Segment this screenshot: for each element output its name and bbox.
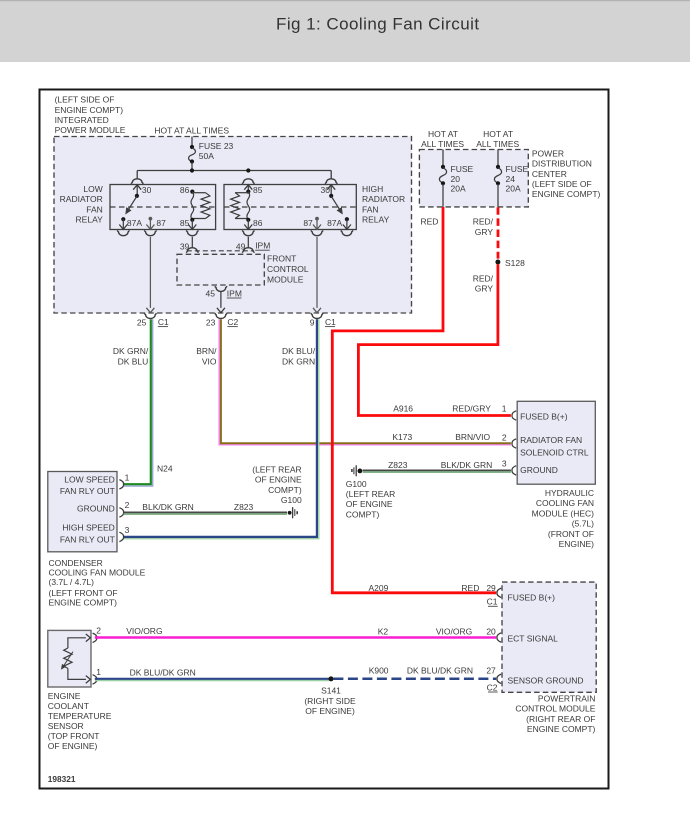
wire PDC top edge to fuse 20 bbox=[442, 150, 444, 167]
relay K1 coil winding bbox=[191, 192, 194, 220]
relay K2 internal dashed divider bbox=[224, 206, 356, 208]
svg-text:RELAY: RELAY bbox=[76, 215, 104, 225]
relay K1 internal dashed divider bbox=[110, 206, 216, 208]
figure number 198321 bbox=[48, 774, 76, 784]
relay K1 87A stub bbox=[119, 219, 127, 229]
svg-text:30: 30 bbox=[321, 185, 331, 195]
svg-text:198321: 198321 bbox=[48, 774, 76, 784]
svg-text:RADIATOR: RADIATOR bbox=[362, 194, 405, 204]
connector arc - PCM pin 29 bbox=[497, 588, 501, 597]
label FUSED B(+) (HEC) bbox=[520, 411, 568, 421]
svg-text:POWER: POWER bbox=[532, 148, 564, 158]
svg-text:3: 3 bbox=[125, 525, 130, 535]
connector arc - HEC pin 1 bbox=[512, 411, 516, 420]
relay K2 87A stub bbox=[343, 219, 351, 229]
junction node - bus to high relay coil bbox=[246, 168, 250, 172]
svg-text:SOLENOID CTRL: SOLENOID CTRL bbox=[520, 448, 589, 458]
connector arc - PCM pin 20 bbox=[497, 633, 501, 642]
relay K2 coil top node bbox=[246, 190, 250, 194]
svg-text:(RIGHT SIDE: (RIGHT SIDE bbox=[304, 696, 356, 706]
condenser cooling fan module box bbox=[48, 472, 117, 552]
svg-text:(LEFT SIDE OF: (LEFT SIDE OF bbox=[55, 95, 115, 105]
svg-text:45: 45 bbox=[206, 288, 216, 298]
integrated power module box (dashed) bbox=[54, 137, 412, 314]
svg-text:VIO/ORG: VIO/ORG bbox=[126, 626, 162, 636]
svg-text:LOW SPEED: LOW SPEED bbox=[64, 475, 115, 485]
svg-text:COOLANT: COOLANT bbox=[48, 701, 89, 711]
svg-text:87: 87 bbox=[303, 218, 313, 228]
pin label 30 (K1) bbox=[142, 185, 152, 195]
fuse F24 20A bbox=[494, 165, 501, 186]
pin label 2 (condenser) bbox=[125, 500, 130, 510]
svg-text:IPM: IPM bbox=[227, 288, 242, 298]
connector arc - HEC pin 3 bbox=[512, 466, 516, 475]
label DK BLU/ DK GRN bbox=[282, 346, 316, 366]
svg-text:CONDENSER: CONDENSER bbox=[49, 558, 103, 568]
svg-text:20A: 20A bbox=[451, 184, 466, 194]
FCM connector dashed link bbox=[187, 250, 254, 252]
ECT internal lead to pin 2 bbox=[68, 634, 91, 648]
relay K2 contact 87A node bbox=[345, 217, 349, 221]
svg-text:86: 86 bbox=[180, 185, 190, 195]
svg-text:DK GRN: DK GRN bbox=[282, 356, 315, 366]
relay K1 switch pivot node bbox=[135, 194, 139, 198]
fuse F23 50A bbox=[189, 145, 196, 164]
wire FCM pin 45 to IPM connector 23 bbox=[217, 292, 225, 313]
connector arc - condenser pin 1 bbox=[119, 480, 123, 489]
connector arc - K1 pin 30 bbox=[131, 179, 143, 184]
engine coolant temperature sensor box bbox=[48, 630, 91, 687]
wire BLK/DK GRN circuit Z823 (condenser pin 2 to ground G100) bbox=[124, 512, 287, 514]
svg-text:(LEFT SIDE OF: (LEFT SIDE OF bbox=[532, 179, 592, 189]
hydraulic cooling fan module box bbox=[517, 401, 595, 484]
connector 9 C1 arc bbox=[311, 313, 323, 318]
svg-text:85: 85 bbox=[253, 185, 263, 195]
svg-text:Fig 1: Cooling Fan Circuit: Fig 1: Cooling Fan Circuit bbox=[276, 14, 480, 33]
svg-text:86: 86 bbox=[253, 218, 263, 228]
svg-text:1: 1 bbox=[502, 403, 507, 413]
svg-text:(5.7L): (5.7L) bbox=[572, 519, 594, 529]
svg-text:ENGINE COMPT): ENGINE COMPT) bbox=[532, 189, 601, 199]
wire PDC top edge to fuse 24 bbox=[497, 150, 499, 167]
svg-text:RELAY: RELAY bbox=[362, 215, 390, 225]
svg-text:(3.7L / 4.7L): (3.7L / 4.7L) bbox=[49, 577, 95, 587]
ECT thermistor element bbox=[64, 648, 72, 668]
svg-text:(LEFT REAR: (LEFT REAR bbox=[346, 489, 395, 499]
svg-text:DISTRIBUTION: DISTRIBUTION bbox=[532, 159, 592, 169]
HEC row labels A916 RED/GRY bbox=[393, 403, 491, 413]
label HIGH RADIATOR FAN RELAY bbox=[362, 184, 405, 225]
connector arc - FCM pin 49 bbox=[242, 248, 254, 253]
connector 23 C2 arc bbox=[215, 313, 227, 318]
svg-text:1: 1 bbox=[96, 667, 101, 677]
svg-text:K173: K173 bbox=[392, 432, 412, 442]
label ECT SIGNAL (PCM) bbox=[508, 634, 559, 644]
connector arc below K2 86 bbox=[242, 231, 254, 236]
wire RED/GRY circuit A916 (S128 to HEC fused B+) bbox=[358, 264, 511, 415]
wire K1 pin 85 to FCM pin 39 bbox=[191, 237, 193, 248]
label G100 (LEFT REAR OF ENGINE COMPT) left-aligned bbox=[346, 479, 395, 520]
svg-text:C1: C1 bbox=[325, 317, 336, 327]
wire from IPM top edge to fuse 23 bbox=[191, 137, 193, 147]
header bar bbox=[0, 0, 690, 62]
diagram frame bbox=[40, 90, 609, 789]
svg-text:G100: G100 bbox=[346, 479, 367, 489]
svg-text:CONTROL MODULE: CONTROL MODULE bbox=[515, 704, 595, 714]
svg-text:Z823: Z823 bbox=[234, 502, 254, 512]
svg-text:DK BLU: DK BLU bbox=[118, 356, 149, 366]
svg-text:HIGH SPEED: HIGH SPEED bbox=[62, 523, 114, 533]
svg-text:(RIGHT REAR OF: (RIGHT REAR OF bbox=[526, 714, 595, 724]
pin label 87A (K2) bbox=[327, 218, 342, 228]
svg-text:20A: 20A bbox=[506, 184, 521, 194]
label G100 (LEFT REAR OF ENGINE COMPT) right-aligned bbox=[252, 465, 302, 506]
connector arc - PCM pin 27 bbox=[497, 674, 501, 683]
svg-text:FAN RLY OUT: FAN RLY OUT bbox=[60, 486, 115, 496]
svg-text:SENSOR: SENSOR bbox=[48, 721, 84, 731]
wire K2 pin 87 to IPM connector 9 bbox=[313, 237, 321, 313]
svg-text:IPM: IPM bbox=[255, 241, 270, 251]
ECT internal lead to pin 1 bbox=[68, 668, 91, 683]
powertrain control module box (dashed) bbox=[502, 582, 596, 692]
wire DK GRN/DK BLU circuit N24 (25 C1 to condenser fan pin 1) bbox=[124, 319, 153, 486]
svg-text:MODULE (HEC): MODULE (HEC) bbox=[532, 508, 595, 518]
svg-text:2: 2 bbox=[96, 625, 101, 635]
label POWER DISTRIBUTION CENTER bbox=[532, 148, 601, 199]
relay K1 contact 87A node bbox=[121, 217, 125, 221]
relay K2 87 stub bbox=[313, 219, 321, 230]
svg-text:MODULE: MODULE bbox=[267, 275, 304, 285]
svg-text:FUSE 23: FUSE 23 bbox=[199, 141, 234, 151]
wire fuse 24 to PDC bottom edge bbox=[497, 184, 499, 207]
relay K2 coil winding bbox=[247, 192, 250, 220]
svg-text:K2: K2 bbox=[378, 627, 389, 637]
svg-text:RED/GRY: RED/GRY bbox=[452, 403, 491, 413]
pin label 2 (HEC) bbox=[502, 432, 507, 442]
svg-text:ENGINE COMPT): ENGINE COMPT) bbox=[55, 105, 124, 115]
relay K1 parallel resistor bbox=[192, 193, 210, 219]
connector arc - condenser pin 2 bbox=[119, 508, 123, 517]
svg-text:C2: C2 bbox=[487, 682, 498, 692]
label FUSE 20 20A bbox=[451, 164, 474, 194]
connector arc below K1 85 bbox=[186, 231, 198, 236]
power distribution center box (dashed) bbox=[419, 150, 528, 207]
connector arc below K1 87 bbox=[144, 231, 156, 236]
connector arc - ECT pin 1 bbox=[93, 675, 97, 684]
svg-text:BRN/VIO: BRN/VIO bbox=[455, 432, 490, 442]
wire RED circuit A209 (fuse 20 to PCM fused B+) bbox=[332, 207, 496, 593]
pin label 29 C1 (PCM) bbox=[486, 583, 497, 607]
wire BLK/DK GRN circuit Z823 (G100 to HEC ground) bbox=[363, 470, 511, 472]
label BRN/ VIO bbox=[196, 346, 217, 366]
svg-text:FUSED B(+): FUSED B(+) bbox=[508, 592, 556, 602]
wire DK BLU/DK GRN circuit K900 (S141 to PCM sensor ground, dashed) bbox=[333, 678, 496, 681]
svg-text:POWER MODULE: POWER MODULE bbox=[55, 125, 126, 135]
relay K2 coil bottom node bbox=[246, 218, 250, 222]
svg-text:49: 49 bbox=[236, 241, 246, 251]
connector arc - ECT pin 2 bbox=[93, 633, 97, 642]
connector arc - HEC pin 2 bbox=[512, 439, 516, 448]
PCM row labels K2 VIO/ORG bbox=[378, 627, 473, 637]
svg-text:RED: RED bbox=[421, 217, 439, 227]
label 25 C1 bbox=[137, 317, 169, 327]
svg-text:DK GRN/: DK GRN/ bbox=[113, 346, 149, 356]
wire fuse 20 to PDC bottom edge bbox=[442, 184, 444, 207]
wire fuse 23 to relay feed bus bbox=[191, 162, 193, 170]
connector arc - condenser pin 3 bbox=[119, 532, 123, 541]
pin 30 entry arrow K1 bbox=[133, 185, 141, 196]
svg-text:1: 1 bbox=[125, 472, 130, 482]
svg-text:ALL TIMES: ALL TIMES bbox=[421, 139, 464, 149]
svg-text:FAN: FAN bbox=[86, 204, 103, 214]
svg-text:RED/: RED/ bbox=[473, 217, 494, 227]
svg-text:COMPT): COMPT) bbox=[346, 509, 380, 519]
splice S141 bbox=[329, 676, 334, 681]
pin label 45 (FCM) bbox=[206, 288, 216, 298]
svg-text:2: 2 bbox=[502, 432, 507, 442]
svg-text:HOT AT: HOT AT bbox=[483, 129, 513, 139]
svg-text:ENGINE COMPT): ENGINE COMPT) bbox=[527, 724, 596, 734]
svg-text:HYDRAULIC: HYDRAULIC bbox=[545, 488, 594, 498]
svg-text:A209: A209 bbox=[369, 583, 389, 593]
connector arc - K2 pin 30 bbox=[325, 179, 337, 184]
label DK BLU/DK GRN (left) bbox=[130, 667, 196, 677]
pin label 87 (K1) bbox=[156, 218, 166, 228]
svg-text:C1: C1 bbox=[158, 317, 169, 327]
wire BRN/VIO circuit K173 (23 C2 to HEC pin 2) bbox=[219, 319, 511, 445]
svg-text:(TOP FRONT: (TOP FRONT bbox=[48, 731, 100, 741]
svg-text:27: 27 bbox=[486, 665, 496, 675]
label HOT AT ALL TIMES (fuse 20) bbox=[421, 129, 464, 149]
svg-text:OF ENGINE: OF ENGINE bbox=[346, 499, 393, 509]
svg-text:S141: S141 bbox=[321, 686, 341, 696]
svg-text:29: 29 bbox=[486, 583, 496, 593]
label Z823 (condenser ground) bbox=[234, 502, 254, 512]
svg-text:DK BLU/: DK BLU/ bbox=[282, 346, 316, 356]
label HYDRAULIC COOLING FAN MODULE (HEC) bbox=[532, 488, 595, 549]
relay K2 contact 87 node bbox=[315, 217, 319, 221]
wire DK BLU/DK GRN (ECT pin 1 to splice S141) bbox=[95, 679, 329, 681]
svg-text:85: 85 bbox=[180, 218, 190, 228]
label LOW RADIATOR FAN RELAY bbox=[60, 184, 103, 225]
label FUSED B(+) (PCM) bbox=[508, 592, 556, 602]
front control module box (dashed) bbox=[177, 254, 264, 285]
svg-text:CENTER: CENTER bbox=[532, 169, 567, 179]
svg-text:COMPT): COMPT) bbox=[268, 485, 302, 495]
svg-text:23: 23 bbox=[206, 317, 216, 327]
relay K1 contact 87 node bbox=[149, 217, 153, 221]
svg-text:BLK/DK GRN: BLK/DK GRN bbox=[441, 460, 493, 470]
svg-text:20: 20 bbox=[486, 627, 496, 637]
svg-text:GRY: GRY bbox=[475, 284, 494, 294]
svg-text:FAN: FAN bbox=[362, 204, 379, 214]
svg-text:ENGINE COMPT): ENGINE COMPT) bbox=[49, 598, 118, 608]
pin label 39 (FCM) bbox=[180, 241, 190, 251]
svg-text:S128: S128 bbox=[505, 258, 525, 268]
svg-text:50A: 50A bbox=[199, 151, 214, 161]
svg-text:3: 3 bbox=[502, 459, 507, 469]
label FRONT CONTROL MODULE bbox=[267, 254, 309, 285]
svg-text:FUSED B(+): FUSED B(+) bbox=[520, 411, 568, 421]
pin label 1 (condenser) bbox=[125, 472, 130, 482]
svg-text:ENGINE: ENGINE bbox=[48, 691, 81, 701]
HEC row labels K173 BRN/VIO bbox=[392, 432, 490, 442]
label S141 (RIGHT SIDE OF ENGINE) bbox=[304, 686, 356, 716]
pin label 3 (condenser) bbox=[125, 525, 130, 535]
svg-text:(LEFT REAR: (LEFT REAR bbox=[252, 465, 301, 475]
svg-text:HOT AT ALL TIMES: HOT AT ALL TIMES bbox=[154, 125, 229, 135]
label RED/ GRY (below S128) bbox=[473, 273, 494, 293]
wire K2 pin 86 to FCM pin 49 bbox=[247, 237, 249, 248]
svg-text:BRN/: BRN/ bbox=[196, 346, 217, 356]
label CONDENSER COOLING FAN MODULE bbox=[49, 558, 146, 608]
svg-text:HOT AT: HOT AT bbox=[428, 129, 458, 139]
ground G100 (HEC side) bbox=[352, 465, 362, 476]
svg-text:(FRONT OF: (FRONT OF bbox=[548, 529, 594, 539]
label POWERTRAIN CONTROL MODULE bbox=[515, 694, 595, 735]
pin label 87 (K2) bbox=[303, 218, 313, 228]
svg-text:INTEGRATED: INTEGRATED bbox=[55, 115, 109, 125]
connector arc - FCM pin 45 bbox=[215, 286, 227, 291]
label VIO/ORG (left) bbox=[126, 626, 162, 636]
svg-text:OF ENGINE): OF ENGINE) bbox=[305, 706, 355, 716]
pin label 30 (K2) bbox=[321, 185, 331, 195]
connector arc - K2 pin 85 bbox=[242, 179, 254, 184]
svg-text:HIGH: HIGH bbox=[362, 184, 383, 194]
svg-text:20: 20 bbox=[451, 174, 461, 184]
IPM location label bbox=[55, 95, 126, 135]
svg-text:24: 24 bbox=[506, 174, 516, 184]
svg-text:FUSE: FUSE bbox=[451, 164, 474, 174]
svg-text:N24: N24 bbox=[157, 464, 173, 474]
label SENSOR GROUND (PCM) bbox=[508, 676, 584, 686]
svg-text:COOLING FAN MODULE: COOLING FAN MODULE bbox=[49, 568, 146, 578]
pin label 87A (K1) bbox=[127, 218, 142, 228]
relay K2 86 stub bbox=[244, 220, 252, 230]
label S128 bbox=[505, 258, 525, 268]
label GROUND (HEC) bbox=[520, 465, 558, 475]
svg-text:SENSOR GROUND: SENSOR GROUND bbox=[508, 676, 584, 686]
label ENGINE COOLANT TEMPERATURE SENSOR bbox=[48, 691, 112, 751]
connector arc - FCM pin 39 bbox=[186, 248, 198, 253]
svg-text:DK BLU/DK GRN: DK BLU/DK GRN bbox=[407, 665, 473, 675]
svg-text:GRY: GRY bbox=[475, 227, 494, 237]
svg-text:RADIATOR: RADIATOR bbox=[60, 194, 103, 204]
PCM row labels K900 DK BLU/DK GRN bbox=[369, 665, 473, 675]
ground G100 (condenser side) bbox=[288, 507, 298, 518]
pin label 86 (K1) bbox=[180, 185, 190, 195]
svg-text:C2: C2 bbox=[227, 317, 238, 327]
splice S128 bbox=[495, 260, 500, 265]
wire DK BLU/DK GRN circuit N23 (9 C1 to condenser fan pin 3) bbox=[124, 319, 319, 538]
wire VIO/ORG circuit K2 (ECT pin 2 to PCM ECT signal) bbox=[95, 636, 496, 639]
svg-text:2: 2 bbox=[125, 500, 130, 510]
pin label 1 (HEC) bbox=[502, 403, 507, 413]
pin label 20 (PCM) bbox=[486, 627, 496, 637]
svg-text:ECT SIGNAL: ECT SIGNAL bbox=[508, 634, 559, 644]
svg-text:COOLING FAN: COOLING FAN bbox=[536, 498, 594, 508]
junction node - bus to low relay coil bbox=[190, 168, 194, 172]
label HOT AT ALL TIMES (fuse 24) bbox=[476, 129, 519, 149]
svg-text:25: 25 bbox=[137, 317, 147, 327]
connector arc below K1 87A bbox=[117, 231, 129, 236]
pin 30 entry arrow K2 bbox=[327, 185, 335, 196]
label 9 C1 bbox=[310, 317, 336, 327]
relay K2 parallel resistor bbox=[231, 193, 249, 219]
svg-text:K900: K900 bbox=[369, 665, 389, 675]
label RED/ GRY (above S128) bbox=[473, 217, 494, 237]
svg-text:POWERTRAIN: POWERTRAIN bbox=[538, 694, 595, 704]
pin label 85 (K2) bbox=[253, 185, 263, 195]
svg-text:DK BLU/DK GRN: DK BLU/DK GRN bbox=[130, 667, 196, 677]
fuse F20 20A bbox=[439, 165, 446, 186]
svg-text:ENGINE): ENGINE) bbox=[559, 539, 595, 549]
svg-text:GROUND: GROUND bbox=[520, 465, 558, 475]
svg-text:RED/: RED/ bbox=[473, 273, 494, 283]
label RADIATOR FAN SOLENOID CTRL bbox=[520, 435, 589, 458]
svg-text:A916: A916 bbox=[393, 403, 413, 413]
svg-text:FAN RLY OUT: FAN RLY OUT bbox=[60, 534, 115, 544]
label IPM at FCM pin 45 bbox=[227, 288, 242, 298]
svg-text:CONTROL: CONTROL bbox=[267, 264, 309, 274]
pin label 27 C2 (PCM) bbox=[486, 665, 497, 692]
pin label 49 (FCM) bbox=[236, 241, 246, 251]
PCM row labels A209 RED bbox=[369, 583, 480, 593]
svg-text:RED: RED bbox=[461, 583, 479, 593]
svg-text:FUSE: FUSE bbox=[506, 164, 529, 174]
ECT thermistor arrow bbox=[62, 652, 74, 669]
label HOT AT ALL TIMES (IPM feed) bbox=[154, 125, 229, 135]
connector 25 C1 arc bbox=[144, 313, 156, 318]
svg-text:C1: C1 bbox=[487, 597, 498, 607]
label BLK/DK GRN (condenser ground) bbox=[142, 502, 194, 512]
label N24 bbox=[157, 464, 173, 474]
svg-text:BLK/DK GRN: BLK/DK GRN bbox=[142, 502, 194, 512]
pin label 86 (K2) bbox=[253, 218, 263, 228]
svg-text:(LEFT FRONT OF: (LEFT FRONT OF bbox=[49, 588, 118, 598]
pin label 2 (ECT) bbox=[96, 625, 101, 635]
wire K1 pin 87 to IPM connector 25 bbox=[146, 237, 154, 313]
svg-text:87A: 87A bbox=[127, 218, 142, 228]
svg-text:VIO: VIO bbox=[202, 356, 217, 366]
relay K2 switch pivot node bbox=[329, 194, 333, 198]
relay K1 85 stub bbox=[188, 220, 196, 230]
label IPM at FCM pin 49 bbox=[255, 241, 270, 251]
svg-text:RADIATOR FAN: RADIATOR FAN bbox=[520, 435, 582, 445]
pin label 1 (ECT) bbox=[96, 667, 101, 677]
relay K2 switch arm bbox=[331, 196, 342, 214]
svg-text:G100: G100 bbox=[281, 495, 302, 505]
label FUSE 23 / 50A bbox=[199, 141, 234, 161]
relay K1 switch arm bbox=[126, 196, 137, 214]
title Fig 1: Cooling Fan Circuit bbox=[276, 14, 480, 33]
svg-text:FRONT: FRONT bbox=[267, 254, 296, 264]
connector arc below K2 87 bbox=[311, 231, 323, 236]
svg-text:LOW: LOW bbox=[83, 184, 102, 194]
label FUSE 24 20A bbox=[506, 164, 529, 194]
connector arc below K2 87A bbox=[341, 231, 353, 236]
svg-text:OF ENGINE: OF ENGINE bbox=[255, 475, 302, 485]
svg-text:9: 9 bbox=[310, 317, 315, 327]
pin label 85 (K1) bbox=[180, 218, 190, 228]
svg-text:39: 39 bbox=[180, 241, 190, 251]
condenser fan module pin labels bbox=[60, 475, 115, 545]
svg-text:VIO/ORG: VIO/ORG bbox=[436, 627, 472, 637]
svg-text:OF ENGINE): OF ENGINE) bbox=[48, 741, 98, 751]
label DK GRN/ DK BLU bbox=[113, 346, 149, 366]
relay K1 low radiator fan relay box bbox=[110, 185, 216, 230]
wire RED/GRY from fuse 24 to splice S128 (dashed) bbox=[497, 207, 500, 258]
